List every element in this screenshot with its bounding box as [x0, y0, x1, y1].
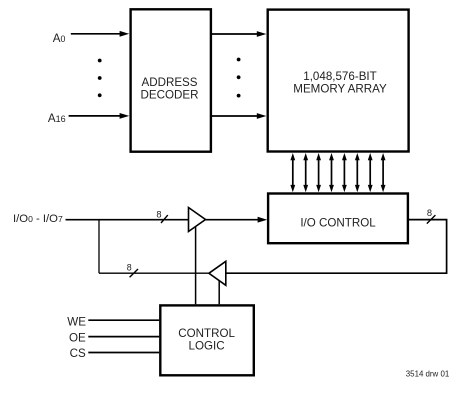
svg-text:1,048,576-BIT: 1,048,576-BIT: [303, 70, 376, 83]
wire buffer output into I/O control: [206, 219, 260, 221]
buffer triangle (input, pointing left): [209, 261, 226, 285]
bus width slash on I/O input line: [161, 215, 168, 223]
node dots between decoder and memory: [237, 58, 241, 98]
svg-text:LOGIC: LOGIC: [189, 339, 225, 352]
svg-text:CONTROL: CONTROL: [178, 327, 235, 340]
bidirectional data arrows between memory array and I/O control: [290, 153, 385, 192]
svg-text:8: 8: [156, 209, 161, 219]
wire enable line to input buffer: [218, 280, 220, 304]
arrowhead into address decoder (A16): [120, 113, 130, 119]
svg-text:ADDRESS: ADDRESS: [141, 76, 197, 89]
wire A16 input line: [69, 115, 121, 117]
block I/O CONTROL: [268, 194, 408, 244]
svg-text:A16: A16: [48, 112, 66, 125]
arrowhead into memory array bottom: [257, 113, 267, 119]
bus width slash on right loop: [427, 215, 436, 224]
wire right feedback loop: [226, 220, 447, 274]
svg-text:WE: WE: [67, 315, 86, 328]
svg-text:I/O CONTROL: I/O CONTROL: [300, 216, 376, 229]
block ADDRESS DECODER: [131, 9, 211, 151]
wire decoder to memory bottom: [212, 115, 259, 117]
buffer triangle (output, pointing right): [189, 208, 206, 232]
bus width slash on lower-left line: [130, 269, 138, 277]
svg-text:A0: A0: [53, 32, 66, 45]
svg-text:I/O0 - I/O7: I/O0 - I/O7: [13, 213, 63, 225]
svg-text:8: 8: [127, 262, 132, 272]
wire OE input: [88, 336, 159, 338]
svg-text:3514 drw 01: 3514 drw 01: [406, 370, 449, 379]
arrowhead into address decoder (A0): [120, 31, 130, 37]
arrowhead into memory array top: [257, 31, 267, 37]
svg-text:DECODER: DECODER: [141, 88, 199, 101]
wire junction drop at I/O bus: [98, 220, 100, 274]
wire lower-left output line: [99, 272, 210, 274]
node dots between A0 and A16: [98, 59, 102, 98]
wire enable line to output buffer: [195, 226, 197, 304]
wire WE input: [88, 319, 159, 321]
wire decoder to memory top: [212, 33, 259, 35]
block CONTROL LOGIC: [160, 305, 254, 375]
arrowhead into I/O control: [258, 217, 268, 223]
svg-text:OE: OE: [69, 332, 86, 345]
wire CS input: [88, 352, 159, 354]
block 1,048,576-BIT MEMORY ARRAY: [268, 10, 409, 152]
wire A0 input line: [71, 33, 121, 35]
wire I/O bus input: [66, 219, 189, 221]
svg-text:MEMORY ARRAY: MEMORY ARRAY: [293, 82, 387, 95]
svg-text:8: 8: [427, 208, 432, 218]
svg-text:CS: CS: [70, 347, 86, 360]
